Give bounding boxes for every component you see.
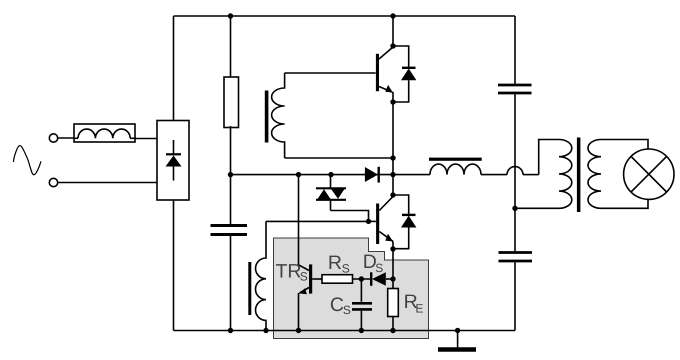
resistor RE [388, 289, 399, 317]
diode D3 [393, 195, 416, 249]
node [390, 43, 395, 48]
wire [285, 157, 393, 159]
node [390, 99, 395, 104]
wire Q1 base lead [285, 72, 376, 74]
resistor RS [322, 275, 353, 284]
capacitor CS [352, 279, 372, 331]
lamp [624, 149, 674, 199]
wire hop [507, 167, 523, 175]
wire [230, 16, 232, 77]
node [296, 172, 301, 177]
transformer T2 secondary [588, 140, 648, 209]
wire [514, 94, 516, 251]
terminal top [49, 134, 57, 142]
wire [230, 126, 232, 224]
svg-text:R: R [328, 252, 342, 274]
svg-text:S: S [375, 261, 383, 275]
right bus [514, 16, 516, 84]
bridge rectifier [157, 121, 189, 201]
wire [134, 138, 157, 140]
node [455, 328, 460, 333]
capacitor C2 [498, 85, 532, 93]
node [390, 328, 395, 333]
transistor TRS [299, 264, 323, 330]
node [228, 172, 233, 177]
node [390, 276, 395, 281]
transistor Q1 [376, 47, 393, 102]
node [390, 172, 395, 177]
transformer T2 core [577, 138, 581, 213]
wire bridge bottom lead [173, 200, 175, 331]
diode D2 [393, 46, 416, 102]
terminal bottom [49, 178, 57, 186]
node [390, 155, 395, 160]
wire bottom rail [174, 330, 516, 332]
capacitor C1 [211, 226, 248, 235]
wire DIAC to base [331, 211, 369, 222]
node [390, 246, 395, 251]
wire [514, 262, 516, 330]
wire bridge top lead [173, 16, 175, 121]
svg-text:E: E [415, 301, 423, 315]
node [359, 328, 364, 333]
inductor L2 [393, 158, 507, 175]
wire [58, 182, 157, 184]
wire [230, 236, 232, 331]
svg-text:C: C [330, 294, 344, 316]
wire [392, 16, 394, 46]
node [296, 328, 301, 333]
wire startup line [231, 174, 394, 176]
svg-text:S: S [342, 261, 350, 275]
transformer T2 primary [515, 140, 572, 209]
transistor Q2 [369, 197, 394, 249]
resistor R1 [224, 77, 239, 128]
wire top rail [174, 15, 516, 17]
diode D1 [365, 167, 379, 183]
wire winding to Q2 base [266, 220, 369, 222]
AC source [13, 146, 41, 175]
node [359, 276, 364, 281]
wire [392, 317, 394, 331]
wire midpoint [392, 102, 394, 196]
svg-text:S: S [343, 303, 351, 317]
svg-text:S: S [300, 270, 308, 284]
wire [353, 278, 372, 280]
EMI choke L1 [74, 124, 135, 142]
wire [58, 137, 74, 139]
svg-text:TR: TR [276, 261, 302, 283]
ground [438, 331, 476, 350]
transformer T1 lower winding [248, 221, 266, 330]
wire [523, 174, 539, 176]
node [512, 206, 517, 211]
node [263, 328, 268, 333]
node [390, 13, 395, 18]
node [366, 219, 371, 224]
wire [392, 249, 394, 289]
DIAC [316, 175, 346, 211]
wire TRS collector riser [298, 175, 300, 265]
capacitor C3 [499, 253, 533, 262]
node [228, 13, 233, 18]
node [390, 192, 395, 197]
transformer T1 top winding [265, 73, 285, 158]
snubber box (shaded) [274, 238, 429, 339]
node [228, 328, 233, 333]
diode DS [371, 272, 393, 286]
node [328, 172, 333, 177]
